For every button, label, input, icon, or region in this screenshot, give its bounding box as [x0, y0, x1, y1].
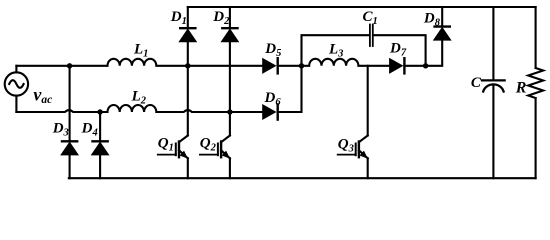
diode D5 [263, 58, 278, 73]
svg-text:C: C [471, 75, 482, 91]
svg-text:Q2: Q2 [200, 136, 217, 154]
svg-text:D5: D5 [264, 41, 281, 59]
svg-text:D7: D7 [389, 41, 407, 59]
wire row1 upper line with inductor L1 arcs [16, 59, 262, 66]
wire D3 branch vertical from row1 [69, 66, 71, 142]
node dot node X [299, 63, 304, 68]
node dot row1 phase1 [185, 63, 190, 68]
wire Q3 branch vertical [367, 66, 369, 136]
wire D7 to D8 branch [404, 40, 442, 66]
wire D4 branch vertical from row2 [99, 112, 101, 141]
svg-text:vac: vac [33, 85, 52, 107]
svg-text:D4: D4 [81, 121, 98, 139]
svg-text:C1: C1 [363, 9, 378, 27]
bottom rail [69, 177, 536, 179]
svg-text:D3: D3 [52, 121, 69, 139]
node dot row2 D4 branch [97, 109, 102, 114]
svg-text:L1: L1 [133, 42, 148, 60]
svg-text:D8: D8 [423, 10, 441, 28]
wire D5 to node X [278, 65, 302, 67]
diode D3 [61, 141, 78, 178]
diode D1 [179, 7, 196, 136]
wire row2 lower line with inductor L2 arcs and hop-overs [16, 105, 262, 112]
svg-text:Q3: Q3 [338, 137, 354, 155]
diode D2 [221, 7, 238, 136]
svg-text:L3: L3 [328, 41, 343, 59]
capacitor C1 plates [370, 25, 373, 47]
diode D6 [263, 104, 278, 119]
svg-text:D2: D2 [212, 9, 230, 27]
svg-text:D6: D6 [264, 90, 282, 108]
diode D7 [390, 58, 405, 73]
ac source Vac [5, 66, 28, 112]
svg-text:D1: D1 [170, 9, 187, 27]
wire row1 node X with inductor L3 arcs [302, 59, 390, 66]
node dot C1 right leg [423, 63, 428, 68]
diode D4 [92, 141, 109, 178]
node dot row1 D3 branch [67, 63, 72, 68]
node dot row2 phase2 [227, 109, 232, 114]
diode D8 [434, 7, 451, 40]
wire D6 up to node X [278, 66, 302, 112]
svg-text:R: R [515, 80, 527, 97]
capacitor C1 branch wire right [374, 35, 426, 66]
transistor Q2 [200, 136, 230, 179]
svg-text:Q1: Q1 [158, 136, 174, 154]
capacitor C1 branch wire left [302, 35, 370, 66]
svg-text:L2: L2 [131, 88, 147, 106]
resistor R [528, 7, 543, 178]
top rail [188, 6, 536, 8]
capacitor C output branch [482, 7, 505, 178]
transistor Q3 [338, 136, 368, 179]
transistor Q1 [158, 136, 188, 179]
